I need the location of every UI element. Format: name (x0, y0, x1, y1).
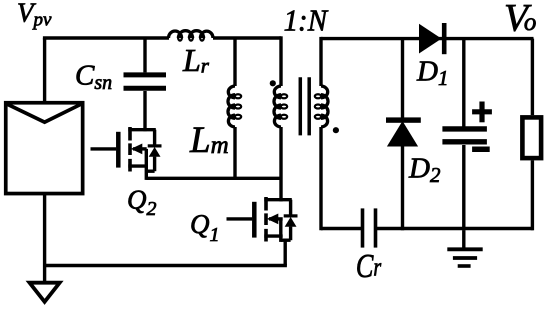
wire top rail primary left segment (43, 36, 169, 39)
inductor Lr (169, 31, 214, 38)
ground output stub (462, 230, 465, 249)
wire Csn to Q2 drain (143, 91, 146, 131)
transformer primary winding (274, 86, 281, 127)
wire switch node from Q2 source to primary (146, 177, 281, 180)
wire transformer primary top (279, 36, 282, 86)
svg-text:Vpv: Vpv (17, 0, 52, 31)
inductor Lm winding (228, 86, 235, 127)
ground output bars (447, 247, 482, 251)
wire Lm top (233, 38, 236, 86)
wire secondary line top (319, 37, 322, 86)
PV source panel (6, 103, 83, 194)
wire D2 branch from top rail (401, 39, 404, 118)
wire secondary line bottom (319, 127, 322, 230)
svg-text:Lm: Lm (189, 120, 229, 161)
wire D2 bottom to rail (401, 147, 404, 231)
dot secondary polarity (333, 127, 339, 133)
svg-text:1:N: 1:N (284, 2, 330, 37)
wire Lm bottom (233, 127, 236, 180)
wire bottom rail secondary right of Cr (377, 227, 534, 230)
minus sign (472, 147, 490, 153)
dot primary polarity (270, 80, 276, 86)
svg-text:Vo: Vo (504, 0, 536, 40)
resistor R load (522, 117, 541, 158)
svg-text:D2: D2 (408, 153, 441, 188)
plus sign (472, 102, 492, 123)
capacitor Co (442, 129, 487, 142)
wire cap bottom to rail (462, 145, 465, 230)
wire top rail primary right segment (213, 36, 281, 39)
transformer secondary winding (321, 86, 328, 127)
capacitor Csn (124, 75, 167, 88)
wire Vo branch to resistor (531, 39, 534, 116)
wire bottom rail secondary left of Cr (321, 227, 361, 230)
capacitor Cr (363, 208, 376, 247)
PV chevron (6, 103, 83, 122)
svg-text:Cr: Cr (356, 248, 382, 285)
svg-text:Csn: Csn (75, 60, 112, 94)
transformer core (300, 77, 309, 135)
svg-text:Lr: Lr (182, 42, 210, 78)
svg-text:Q1: Q1 (190, 209, 220, 246)
wire primary bottom to Q1 drain (279, 127, 282, 201)
svg-text:D1: D1 (416, 56, 448, 90)
wire bottom rail primary (45, 264, 287, 267)
svg-text:Q2: Q2 (127, 185, 157, 221)
diode D2 (386, 117, 421, 122)
wire top rail secondary (321, 37, 534, 40)
ground input triangle (30, 283, 60, 302)
transistor Q1 (227, 197, 298, 266)
wire PV bottom to ground (43, 194, 46, 283)
wire resistor bottom to rail (531, 160, 534, 230)
transistor Q2 (91, 127, 162, 180)
diode D1 (419, 24, 442, 54)
wire input vertical from Vpv rail to PV top (43, 38, 46, 101)
wire output cap branch (462, 39, 465, 128)
wire Csn branch from rail (143, 38, 146, 72)
